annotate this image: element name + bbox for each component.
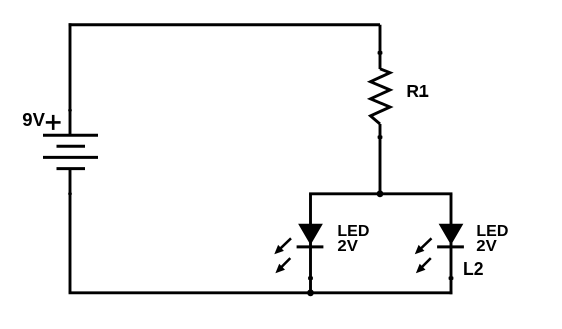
wire left vertical (top of battery): [69, 23, 72, 136]
resistor R1 bottom pin nub: [378, 135, 383, 139]
LED D2 arrow 2: [416, 258, 431, 273]
wire resistor bottom lead: [379, 124, 382, 195]
LED D2 bottom pin nub: [449, 276, 454, 280]
LED D1 cathode bar: [297, 245, 324, 248]
LED D2 cathode bar: [437, 245, 464, 248]
LED D1 arrow 1: [274, 238, 291, 254]
svg-text:L2: L2: [463, 259, 484, 279]
wire resistor top lead: [379, 25, 382, 69]
wire bottom horizontal: [69, 291, 453, 294]
battery bottom pin nub: [68, 192, 72, 195]
LED D1 triangle: [299, 224, 322, 244]
wire right LED branch: [450, 194, 453, 294]
battery B1 9V: [43, 135, 98, 168]
svg-text:9V: 9V: [22, 109, 45, 130]
junction node top: [377, 190, 384, 197]
R1 digit-1 foot serif: [419, 95, 428, 97]
LED D2 arrow 1: [415, 238, 432, 254]
LED D1 bottom pin nub: [308, 276, 313, 280]
resistor R1: [371, 69, 391, 124]
battery top pin nub: [68, 109, 72, 112]
resistor R1 top pin nub: [378, 51, 383, 55]
junction node bottom: [307, 289, 314, 296]
wire left vertical (below battery): [69, 169, 72, 293]
wire left LED branch: [309, 194, 312, 293]
battery plus sign: [46, 115, 61, 130]
svg-text:2V: 2V: [337, 238, 358, 255]
svg-text:R1: R1: [406, 81, 429, 101]
LED D1 arrow 2: [275, 258, 290, 273]
wire parallel top: [309, 192, 452, 195]
LED D2 triangle: [440, 224, 463, 244]
wire top horizontal: [69, 23, 380, 26]
svg-text:2V: 2V: [476, 238, 497, 255]
